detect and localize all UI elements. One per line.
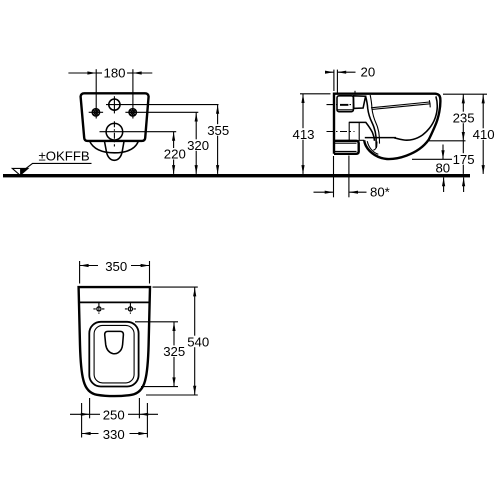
dim 235 line [462,94,464,141]
dim 325 text [163,345,186,357]
dim 413 top ext line [300,93,331,95]
side outer profile [334,94,440,159]
dim 180 extension lines [95,69,97,118]
side outlet box inner [334,143,357,151]
dim 350 ext lines [79,261,81,284]
side flush channel left line [366,96,377,148]
dim 320 text [187,139,210,151]
dim 413 text [292,128,315,140]
inlet crosshair/leader [106,104,219,106]
side flush funnel [353,96,365,109]
dim 330 line + arrows [82,432,91,435]
svg-text:320: 320 [187,138,209,153]
dim 325 line [173,322,175,386]
dim 330 ext lines [81,403,83,438]
dim 540 text [187,336,211,348]
dim 410 text [472,128,496,140]
dim 175 text [452,153,475,165]
svg-text:175: 175 [453,152,475,167]
right top ext line [443,93,487,95]
dim 350 line + arrows [80,264,89,267]
mounting hole right [125,109,198,116]
dim 540 line [194,287,196,395]
OKFFB leader line [26,163,92,168]
dim 20 ext lines [333,70,335,91]
rear bowl arc below body [90,141,139,153]
bottom back ledge line [79,301,150,303]
svg-text:180: 180 [103,65,125,80]
dim 180 line + arrows [68,72,95,74]
svg-text:±OKFFB: ±OKFFB [39,149,90,164]
side trap inner vertical [373,142,377,151]
side trap inner wall arc [367,141,378,154]
side wall ext below floor [333,156,335,197]
side outlet box [334,141,359,154]
inlet circle [109,99,120,110]
rear body outline [81,93,149,141]
dim 80 down arrow [442,145,444,160]
floor line [3,174,470,177]
dim 250 line + arrows [70,413,89,415]
side front inner short line [428,100,431,107]
floor datum triangle [12,168,28,175]
leader underside 159.3 [412,158,456,160]
side inlet box [337,96,353,112]
bottom body outline [79,287,150,396]
dim 220 line [173,132,175,174]
outlet crosshair/leader [100,131,177,133]
dim 220 text [163,148,186,160]
bottom hinge hole left [93,303,104,314]
side flush channel right line [370,95,379,144]
svg-text:330: 330 [103,427,125,442]
side inlet box inner line [337,109,353,111]
leader bowl-bottom 140.8 [429,140,466,142]
bottom flush blob [105,331,124,353]
side outlet axis dash-dot [327,131,355,133]
dim 250 ext lines [89,398,91,418]
svg-text:350: 350 [105,259,127,274]
svg-text:80*: 80* [370,185,390,200]
svg-text:80: 80 [435,160,450,175]
side sleeve verticals [349,122,359,140]
svg-text:540: 540 [187,334,209,349]
dim 355 text [207,124,230,136]
side front inner hook curve [394,96,437,140]
svg-text:410: 410 [473,127,495,142]
dim 540 ext lines [153,286,198,288]
svg-text:325: 325 [163,344,185,359]
svg-text:250: 250 [103,408,125,423]
dim 410 line [482,94,484,174]
side bulge-to-box link [359,139,365,141]
svg-text:235: 235 [453,110,475,125]
side inlet center dash [340,104,348,106]
bottom bowl rim inner [94,325,134,383]
dim 413 line [302,94,304,174]
dim 175 line [462,141,464,174]
dim 325 ext lines [135,321,178,323]
side funnel top tick [354,91,356,95]
dim 80 below-floor arrow [442,178,445,187]
rear outlet U [104,141,124,160]
svg-text:413: 413 [292,127,314,142]
side outlet vertical axis [348,156,350,198]
svg-text:20: 20 [361,64,376,79]
svg-text:355: 355 [207,123,229,138]
dim 80* line + arrows [314,191,334,193]
svg-text:220: 220 [164,147,186,162]
outlet circle [106,123,123,140]
dim 175 below-floor arrow [462,178,465,187]
bottom hinge hole right [125,303,136,314]
dim 355 line [217,105,219,174]
dim 20 line + arrows [325,71,333,73]
side weir line [365,137,396,139]
dim 320 line [195,112,197,174]
dim 80 text [435,162,451,173]
side inner rim slant lines [371,102,430,110]
side L-detail with curve [349,122,375,140]
bottom bowl rim outer [89,322,138,387]
side inlet axis dash-dot [327,104,354,106]
mounting hole left [89,109,103,116]
dim 235 text [452,112,476,124]
